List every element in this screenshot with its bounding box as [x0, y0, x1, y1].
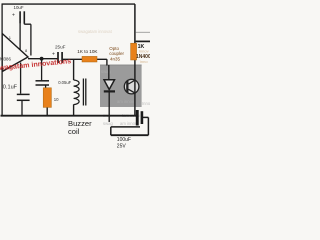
svg-text:0.05uF: 0.05uF	[58, 80, 71, 85]
svg-text:LM386: LM386	[0, 57, 11, 62]
svg-text:inno: inno	[140, 59, 148, 64]
svg-text:am innov: am innov	[117, 99, 135, 104]
svg-text:4n35: 4n35	[110, 56, 121, 61]
svg-text:100uF: 100uF	[117, 137, 131, 143]
svg-text:0.1uF: 0.1uF	[3, 85, 18, 91]
svg-text:swag: swag	[103, 121, 113, 126]
svg-text:10uF: 10uF	[14, 5, 24, 10]
svg-text:coupler: coupler	[109, 51, 124, 56]
svg-text:+: +	[12, 13, 15, 19]
svg-text:swagatam innovat: swagatam innovat	[78, 29, 113, 34]
svg-text:Innov: Innov	[142, 101, 150, 106]
svg-text:25V: 25V	[117, 143, 127, 149]
svg-text:swag: swag	[101, 69, 111, 74]
svg-text:10: 10	[54, 97, 59, 102]
svg-text:innov: innov	[139, 49, 149, 54]
svg-text:am innov: am innov	[120, 121, 138, 126]
svg-text:1K to 10K: 1K to 10K	[77, 49, 98, 54]
svg-text:25uF: 25uF	[55, 45, 66, 50]
svg-text:+: +	[52, 52, 55, 58]
svg-text:coil: coil	[68, 127, 80, 136]
